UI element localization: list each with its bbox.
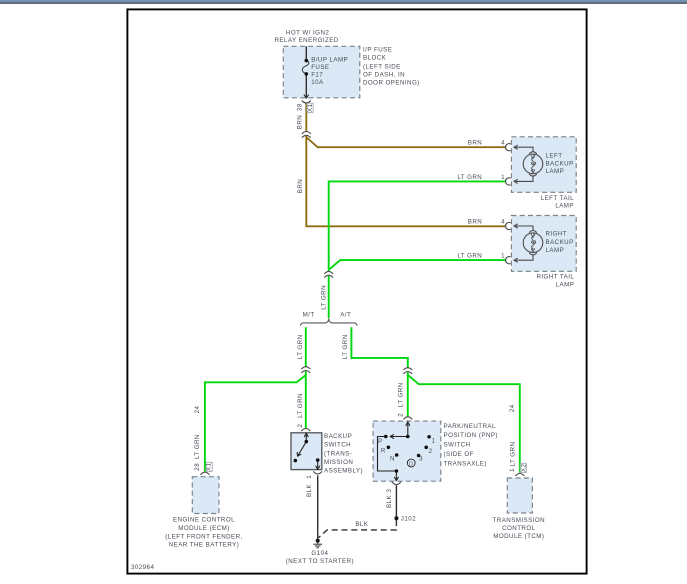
svg-text:LEFT: LEFT xyxy=(546,153,563,160)
svg-text:LAMP: LAMP xyxy=(556,282,575,289)
svg-text:24: 24 xyxy=(509,404,516,412)
svg-text:1: 1 xyxy=(501,253,505,260)
svg-text:PARK/NEUTRAL: PARK/NEUTRAL xyxy=(444,423,496,430)
svg-text:J102: J102 xyxy=(401,516,416,523)
svg-text:TRANSMISSION: TRANSMISSION xyxy=(493,517,546,524)
svg-text:M/T: M/T xyxy=(303,311,315,318)
svg-text:(SIDE OF: (SIDE OF xyxy=(444,451,474,458)
svg-text:LAMP: LAMP xyxy=(546,168,565,175)
svg-text:LAMP: LAMP xyxy=(555,203,574,210)
svg-text:LT GRN: LT GRN xyxy=(398,382,405,407)
svg-text:LT GRN: LT GRN xyxy=(342,334,349,359)
svg-text:BLOCK: BLOCK xyxy=(363,54,387,61)
svg-text:3: 3 xyxy=(419,456,423,463)
svg-text:SWITCH: SWITCH xyxy=(444,442,471,449)
svg-text:LT GRN: LT GRN xyxy=(320,285,327,310)
svg-text:LT GRN: LT GRN xyxy=(510,442,517,467)
svg-text:G104: G104 xyxy=(311,550,328,557)
svg-text:24: 24 xyxy=(194,406,201,414)
svg-text:N: N xyxy=(390,456,395,463)
svg-text:A/T: A/T xyxy=(340,311,351,318)
svg-text:MODULE (TCM): MODULE (TCM) xyxy=(493,533,544,540)
svg-text:TRANSAXLE): TRANSAXLE) xyxy=(444,460,487,467)
svg-text:LT GRN: LT GRN xyxy=(194,434,201,459)
svg-text:RIGHT: RIGHT xyxy=(546,231,568,238)
svg-text:BACKUP: BACKUP xyxy=(324,433,352,440)
svg-text:38: 38 xyxy=(297,103,304,111)
svg-text:LT GRN: LT GRN xyxy=(297,393,304,418)
svg-text:X2: X2 xyxy=(520,464,527,473)
svg-text:BRN: BRN xyxy=(468,140,482,147)
svg-text:BACKUP: BACKUP xyxy=(546,161,574,168)
svg-text:1: 1 xyxy=(509,468,516,472)
svg-text:10A: 10A xyxy=(311,79,324,86)
svg-text:4: 4 xyxy=(501,140,505,147)
svg-text:NEAR THE BATTERY): NEAR THE BATTERY) xyxy=(169,542,240,549)
svg-text:POSITION (PNP): POSITION (PNP) xyxy=(444,432,498,439)
svg-text:4: 4 xyxy=(501,219,505,226)
svg-text:DOOR OPENING): DOOR OPENING) xyxy=(363,80,420,87)
svg-text:F17: F17 xyxy=(311,72,323,79)
svg-text:LT GRN: LT GRN xyxy=(297,334,304,359)
svg-text:(LEFT SIDE: (LEFT SIDE xyxy=(363,63,401,70)
svg-text:LT GRN: LT GRN xyxy=(457,174,482,181)
svg-text:3: 3 xyxy=(386,489,393,493)
svg-text:X1: X1 xyxy=(206,462,213,471)
svg-text:2: 2 xyxy=(397,413,404,417)
svg-text:BRN: BRN xyxy=(297,115,304,129)
svg-text:LT GRN: LT GRN xyxy=(457,253,482,260)
svg-text:(LEFT FRONT FENDER,: (LEFT FRONT FENDER, xyxy=(165,533,242,540)
svg-text:MISSION: MISSION xyxy=(324,459,353,466)
svg-text:P: P xyxy=(378,438,383,445)
svg-text:2: 2 xyxy=(429,448,433,455)
svg-text:BRN: BRN xyxy=(297,179,304,193)
svg-text:RIGHT TAIL: RIGHT TAIL xyxy=(536,274,574,281)
svg-text:X1: X1 xyxy=(307,103,314,112)
svg-text:D: D xyxy=(409,461,413,467)
svg-text:HOT W/ IGN2: HOT W/ IGN2 xyxy=(286,30,329,37)
svg-text:B/UP LAMP: B/UP LAMP xyxy=(311,57,348,64)
svg-text:I/P FUSE: I/P FUSE xyxy=(363,47,392,54)
svg-text:LAMP: LAMP xyxy=(546,247,565,254)
svg-text:BACKUP: BACKUP xyxy=(546,239,574,246)
svg-text:302964: 302964 xyxy=(131,564,154,571)
svg-text:R: R xyxy=(381,448,386,455)
svg-text:LEFT TAIL: LEFT TAIL xyxy=(541,195,574,202)
svg-text:BLK: BLK xyxy=(306,484,313,497)
svg-text:CONTROL: CONTROL xyxy=(502,525,536,532)
svg-text:(TRANS-: (TRANS- xyxy=(324,450,352,457)
svg-text:BLK: BLK xyxy=(386,495,393,508)
svg-text:BLK: BLK xyxy=(355,521,368,528)
svg-text:1: 1 xyxy=(432,438,436,445)
svg-text:ENGINE CONTROL: ENGINE CONTROL xyxy=(173,516,235,523)
svg-text:28: 28 xyxy=(194,463,201,471)
svg-text:ASSEMBLY): ASSEMBLY) xyxy=(324,468,363,475)
svg-text:FUSE: FUSE xyxy=(311,64,329,71)
svg-text:RELAY ENERGIZED: RELAY ENERGIZED xyxy=(274,37,338,44)
svg-text:1: 1 xyxy=(501,174,505,181)
svg-text:OF DASH, IN: OF DASH, IN xyxy=(363,71,405,78)
svg-text:SWITCH: SWITCH xyxy=(324,442,351,449)
svg-text:(NEXT TO STARTER): (NEXT TO STARTER) xyxy=(286,558,354,565)
svg-text:1: 1 xyxy=(306,475,313,479)
svg-text:BRN: BRN xyxy=(468,219,482,226)
svg-text:2: 2 xyxy=(297,424,304,428)
svg-text:MODULE (ECM): MODULE (ECM) xyxy=(178,525,229,532)
